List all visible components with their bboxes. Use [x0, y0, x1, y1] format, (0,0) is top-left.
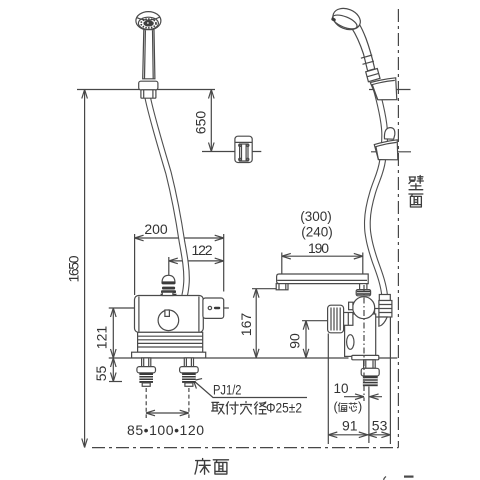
svg-text:53: 53	[372, 418, 388, 434]
svg-text:122: 122	[192, 242, 213, 258]
svg-text:(240): (240)	[301, 225, 333, 240]
svg-text:): )	[358, 400, 362, 414]
svg-text:85•100•120: 85•100•120	[127, 422, 204, 438]
svg-text:650: 650	[192, 111, 208, 135]
svg-text:55: 55	[93, 366, 109, 382]
svg-text:90: 90	[286, 333, 302, 349]
svg-text:1650: 1650	[66, 255, 82, 282]
svg-text:PJ1/2: PJ1/2	[213, 383, 242, 398]
svg-text:91: 91	[342, 418, 358, 434]
svg-text:200: 200	[144, 221, 168, 237]
svg-text:167: 167	[238, 313, 254, 337]
svg-text:121: 121	[94, 326, 110, 350]
svg-text:(300): (300)	[300, 209, 332, 224]
svg-text:190: 190	[308, 240, 329, 256]
svg-text:10: 10	[333, 381, 348, 396]
svg-text:Φ25±2: Φ25±2	[266, 401, 302, 416]
